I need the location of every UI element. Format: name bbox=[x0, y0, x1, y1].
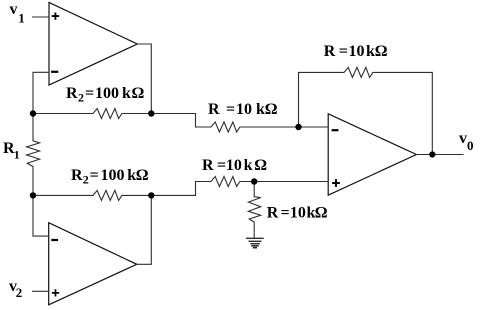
ground bbox=[247, 237, 263, 239]
svg-text:=: = bbox=[226, 101, 235, 118]
junction dot U3 inverting node bbox=[295, 124, 301, 130]
svg-text:k: k bbox=[256, 101, 265, 118]
svg-text:1: 1 bbox=[14, 148, 20, 162]
resistor R feedback bbox=[299, 67, 433, 154]
svg-text:100: 100 bbox=[95, 85, 119, 102]
svg-text:10: 10 bbox=[236, 101, 252, 118]
svg-text:10: 10 bbox=[226, 157, 242, 174]
wire node to U3 non-inverting input bbox=[254, 181, 328, 183]
resistor R2 top bbox=[33, 109, 151, 119]
svg-text:Ω: Ω bbox=[132, 85, 145, 102]
svg-text:=: = bbox=[217, 157, 226, 174]
wire node to U3 inverting input bbox=[299, 126, 329, 128]
svg-text:v: v bbox=[10, 1, 18, 18]
svg-text:=: = bbox=[339, 43, 348, 60]
svg-text:R: R bbox=[324, 43, 336, 60]
svg-text:R: R bbox=[208, 101, 220, 118]
svg-text:2: 2 bbox=[78, 91, 84, 105]
node B junction dot bbox=[30, 192, 36, 198]
svg-text:0: 0 bbox=[467, 138, 474, 153]
wire U2 output bbox=[137, 195, 152, 264]
svg-text:2: 2 bbox=[83, 173, 89, 187]
svg-text:v: v bbox=[459, 130, 467, 147]
svg-text:R: R bbox=[267, 205, 279, 222]
U2 plus pin label bbox=[53, 290, 59, 296]
svg-text:100: 100 bbox=[101, 167, 125, 184]
svg-text:R: R bbox=[202, 157, 214, 174]
U2 minus pin label bbox=[52, 239, 57, 241]
junction dot ground-resistor node bbox=[251, 178, 257, 184]
U3 minus pin label bbox=[333, 129, 338, 131]
svg-text:k: k bbox=[244, 157, 253, 174]
junction dot U3 output node bbox=[429, 151, 435, 157]
svg-text:R: R bbox=[66, 85, 78, 102]
resistor R1 bbox=[27, 114, 40, 196]
svg-text:2: 2 bbox=[16, 285, 22, 300]
resistor R bottom-input bbox=[151, 177, 254, 196]
wire U3 output bbox=[416, 154, 463, 156]
svg-text:=: = bbox=[90, 167, 99, 184]
op-amp U2 bbox=[49, 223, 137, 305]
svg-text:1: 1 bbox=[18, 11, 25, 26]
wire U2 inverting input from node B bbox=[33, 195, 49, 236]
svg-text:10: 10 bbox=[349, 43, 365, 60]
op-amp U3 bbox=[328, 114, 416, 195]
junction dot U1 output node bbox=[148, 110, 154, 116]
wire U1 output bbox=[137, 44, 151, 114]
junction dot U2 output node bbox=[148, 192, 154, 198]
resistor R2 bottom bbox=[33, 190, 151, 200]
svg-text:10: 10 bbox=[290, 205, 306, 222]
svg-text:Ω: Ω bbox=[315, 205, 328, 222]
U1 minus pin label bbox=[52, 71, 57, 73]
resistor R top-input bbox=[151, 114, 298, 133]
svg-text:Ω: Ω bbox=[254, 157, 267, 174]
wire U1 inverting input to node A bbox=[33, 72, 49, 113]
resistor R to ground bbox=[248, 182, 260, 239]
svg-text:=: = bbox=[85, 85, 94, 102]
U1 plus pin label bbox=[53, 13, 59, 18]
wire v2 input bbox=[33, 290, 49, 292]
svg-text:Ω: Ω bbox=[136, 167, 149, 184]
svg-text:R: R bbox=[71, 167, 83, 184]
svg-text:k: k bbox=[366, 43, 375, 60]
U3 plus pin label bbox=[333, 180, 339, 186]
node A junction dot bbox=[30, 110, 36, 116]
svg-text:=: = bbox=[281, 205, 290, 222]
wire v1 input bbox=[33, 16, 50, 18]
svg-text:Ω: Ω bbox=[265, 101, 278, 118]
svg-text:k: k bbox=[122, 85, 131, 102]
svg-text:Ω: Ω bbox=[375, 43, 388, 60]
op-amp U1 bbox=[49, 3, 137, 86]
